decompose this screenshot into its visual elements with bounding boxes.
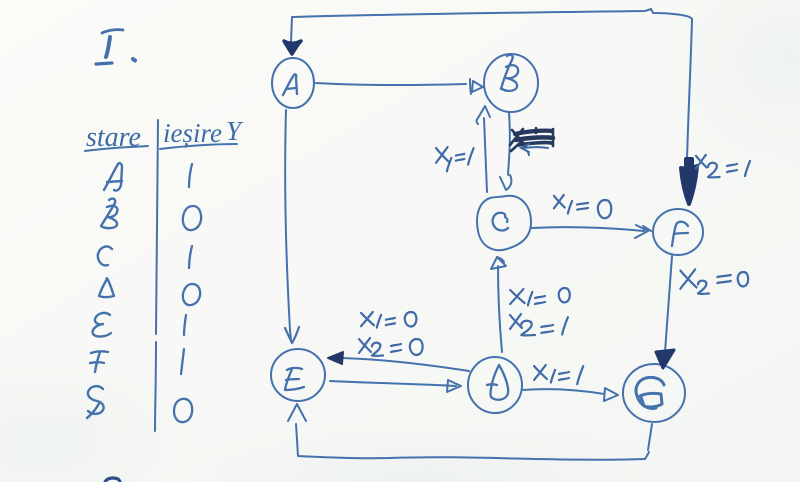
svg-text:stare: stare [86,122,141,153]
svg-text:ieșire: ieșire [163,118,222,148]
